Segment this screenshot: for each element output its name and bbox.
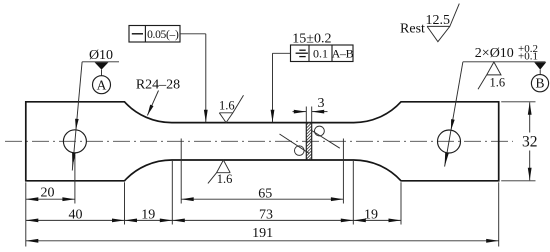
svg-text:15±0.2: 15±0.2	[292, 31, 331, 46]
svg-text:1.6: 1.6	[489, 76, 505, 90]
svg-text:A: A	[97, 77, 107, 92]
left grip hole (Ø10)	[63, 130, 86, 153]
svg-text:32: 32	[522, 134, 538, 151]
svg-text:+0.1: +0.1	[518, 51, 538, 63]
dimension 40 (left end to fillet)	[26, 207, 125, 222]
svg-text:A–B: A–B	[332, 46, 354, 60]
extension line at right fillet tangent	[352, 161, 354, 225]
svg-text:Rest: Rest	[400, 21, 425, 36]
svg-text:0.05(–): 0.05(–)	[147, 29, 179, 41]
svg-text:2×Ø10: 2×Ø10	[475, 46, 514, 61]
centerline (part axis, dash-dot)	[5, 140, 513, 142]
label 2x Ø10 +0.2/+0.1 with leader to right hole	[445, 43, 546, 167]
label Rest with roughness 12.5 (remaining surfaces)	[400, 4, 459, 42]
extension line at left fillet tangent	[171, 161, 173, 225]
feature control frame straightness 0.05	[129, 26, 208, 123]
svg-text:65: 65	[258, 187, 272, 202]
extension line at right fillet end	[400, 182, 402, 224]
svg-text:1.6: 1.6	[217, 172, 233, 186]
grip tangent mark right (diagonal with circle)	[312, 126, 340, 148]
surface roughness 1.6 for holes	[478, 62, 505, 90]
extension line at left end	[25, 182, 27, 246]
svg-text:19: 19	[141, 207, 155, 222]
svg-text:19: 19	[364, 207, 378, 222]
part outline (dog-bone specimen profile)	[26, 102, 499, 181]
extension line at right end	[498, 182, 500, 246]
dimension 19 (left fillet width)	[125, 207, 173, 222]
svg-text:Ø10: Ø10	[89, 48, 113, 63]
datum feature symbol B	[531, 62, 548, 92]
dimension 19 (right fillet width)	[353, 207, 401, 222]
extension line at left hole center	[74, 155, 76, 204]
dimension 32 (grip width)	[501, 102, 537, 181]
svg-text:B: B	[535, 76, 544, 91]
svg-text:73: 73	[259, 207, 273, 222]
svg-text:1.6: 1.6	[219, 99, 235, 113]
right grip hole (Ø10)	[438, 130, 461, 153]
dimension 3 (section width)	[293, 96, 328, 122]
label R24-28 with leader to fillet	[136, 78, 180, 116]
surface roughness 1.6 on gauge top edge	[219, 95, 244, 122]
datum feature symbol A	[93, 62, 111, 93]
svg-text:20: 20	[41, 186, 55, 201]
dimension 65 (gauge length)	[181, 187, 343, 202]
extension line at gauge mark left (65)	[180, 139, 182, 204]
dimension 191 (overall length)	[26, 226, 499, 243]
feature control frame symmetry 0.1 A-B	[271, 45, 354, 122]
svg-text:0.1: 0.1	[313, 46, 328, 60]
dimension 73 (parallel length)	[172, 207, 353, 222]
svg-text:R24–28: R24–28	[136, 78, 180, 93]
svg-text:40: 40	[69, 207, 83, 222]
svg-text:191: 191	[252, 226, 273, 241]
surface roughness 1.6 on gauge bottom edge	[208, 160, 233, 186]
grip tangent mark left (diagonal with circle)	[280, 134, 310, 155]
label Ø10 with leader to left hole	[72, 48, 119, 171]
hatched cross-section bar (3 wide)	[306, 117, 311, 169]
extension line at gauge mark right (65)	[342, 139, 344, 204]
dimension 20 (left end to hole)	[26, 186, 75, 201]
svg-text:3: 3	[318, 96, 325, 111]
extension line at left fillet start	[124, 182, 126, 224]
